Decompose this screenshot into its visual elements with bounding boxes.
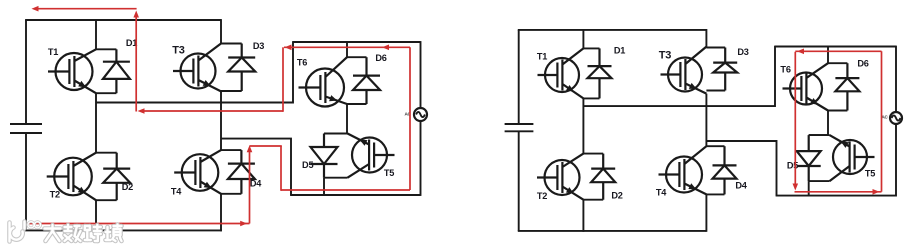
wire: leg2 upper (circuit 1) <box>220 19 222 43</box>
red path: block left vertical upper (circuit 1) <box>282 47 284 112</box>
transistor T1 (circuit 2) <box>538 48 584 98</box>
red path: up arrow at D1 (circuit 1) <box>133 11 139 112</box>
transistor T3 (circuit 2) <box>661 47 707 94</box>
transistor T5 (circuit 2) <box>830 135 875 181</box>
wire: top DC rail (circuit 2) <box>518 29 707 31</box>
svg-text:T2: T2 <box>537 191 547 201</box>
wire: left DC rail bottom segment (circuit 1) <box>25 133 27 230</box>
wire: AC source upper lead (circuit 1) <box>420 41 422 108</box>
svg-text:T3: T3 <box>172 44 185 56</box>
svg-text:D2: D2 <box>611 190 622 200</box>
label D1 (circuit 2) <box>614 45 625 55</box>
label D3 (circuit 2) <box>737 47 748 57</box>
wire: left DC rail top segment (circuit 2) <box>518 30 520 124</box>
svg-text:T5: T5 <box>865 168 875 178</box>
wire: top DC rail (circuit 1) <box>25 19 221 21</box>
svg-text:T1: T1 <box>537 51 547 61</box>
svg-text:D6: D6 <box>857 58 868 68</box>
wire: block center middle (circuit 1) <box>346 104 348 134</box>
label T4 <box>171 186 182 196</box>
red path: block left vertical lower (circuit 1) <box>280 146 282 191</box>
svg-text:D5: D5 <box>787 160 798 170</box>
label D3 <box>253 41 264 51</box>
wire: leg2 midpoint to block bottom (node B) <box>221 139 291 195</box>
red path: AC right vertical (circuit 1) <box>409 47 411 190</box>
red path: top return arrow (circuit 1) <box>32 6 137 12</box>
diode D1 <box>96 49 130 93</box>
diode D6 (circuit 2) <box>828 63 859 110</box>
red path: jog to D4 (circuit 1) <box>250 145 282 147</box>
label D2 <box>122 182 133 192</box>
label T2 <box>50 189 60 199</box>
wire: bottom DC rail (circuit 2) <box>518 230 707 232</box>
wire: block center upper (circuit 1) <box>346 41 348 57</box>
AC source V2 <box>890 112 902 124</box>
diode D2 (circuit 2) <box>583 154 615 200</box>
svg-text:T5: T5 <box>384 168 394 178</box>
label T6 (circuit 2) <box>780 64 790 74</box>
diode D3 (circuit 2) <box>706 48 737 91</box>
transistor T2 <box>47 153 96 201</box>
svg-text:T4: T4 <box>171 186 182 196</box>
capacitor C2 plates <box>505 124 534 131</box>
wire: block top rail (circuit 1) <box>293 41 421 43</box>
watermark glyph 2 <box>65 225 81 241</box>
label D4 <box>250 178 262 188</box>
wire: leg2 middle (circuit 1) <box>220 91 222 150</box>
svg-text:D5: D5 <box>302 160 313 170</box>
wire: leg1 middle (circuit 2) <box>582 98 584 153</box>
red path: loop top leftward arrow (circuit 2) <box>795 49 881 55</box>
diode D6 <box>347 57 380 104</box>
svg-text:T6: T6 <box>297 57 307 67</box>
svg-text:T2: T2 <box>50 189 60 199</box>
label T2 (circuit 2) <box>537 191 547 201</box>
wire: block center middle (circuit 2) <box>827 111 829 136</box>
red path: loop left vertical with down arrow (circuit 2) <box>793 52 799 191</box>
label D6 (circuit 2) <box>857 58 868 68</box>
wire: D5 lower wire to block bottom (circuit 2) <box>808 181 810 196</box>
label D1 <box>126 38 137 48</box>
svg-text:D1: D1 <box>614 45 625 55</box>
diode D5 (circuit 2) <box>797 135 830 181</box>
wire: leg1 upper (circuit 1) <box>95 19 97 49</box>
transistor T4 <box>174 150 221 194</box>
label T3 (circuit 2) <box>659 49 672 61</box>
label D4 (circuit 2) <box>735 180 747 190</box>
wire: block bottom rail (circuit 2) <box>776 195 896 197</box>
svg-text:D3: D3 <box>253 41 264 51</box>
wire: leg2 lower (circuit 2) <box>705 194 707 231</box>
wire: block center upper (circuit 2) <box>827 46 829 64</box>
transistor T4 (circuit 2) <box>659 146 707 194</box>
wire: left DC rail bottom segment (circuit 2) <box>518 131 520 231</box>
label D5 (circuit 2) <box>787 160 798 170</box>
wire: leg1 middle (circuit 1) <box>95 93 97 153</box>
red path: block bottom (circuit 1) <box>281 189 410 191</box>
svg-text:T3: T3 <box>659 49 672 61</box>
wire: AC source lower lead (circuit 2) <box>895 124 897 197</box>
wire: D5 lower wire to block bottom (circuit 1) <box>323 178 325 196</box>
watermark glyph 4 <box>106 225 122 242</box>
red path: bottom rail rightward (circuit 1) <box>27 221 250 227</box>
wire: leg2 upper (circuit 2) <box>705 29 707 47</box>
label T4 (circuit 2) <box>656 187 667 197</box>
wire: leg2 middle (circuit 2) <box>705 94 707 147</box>
svg-text:D2: D2 <box>122 182 133 192</box>
label D5 <box>302 160 313 170</box>
diode D5 <box>311 134 348 178</box>
label D2 (circuit 2) <box>611 190 622 200</box>
red path: block top leftward (circuit 1) <box>284 45 410 51</box>
diode D4 (circuit 2) <box>706 146 736 194</box>
diode D2 <box>96 153 130 201</box>
svg-text:T4: T4 <box>656 187 667 197</box>
diode D1 (circuit 2) <box>583 48 611 98</box>
label AC (circuit 2) <box>881 115 888 120</box>
wire: leg1 upper (circuit 2) <box>582 29 584 48</box>
svg-text:D6: D6 <box>375 53 386 63</box>
label AC (circuit 1) <box>404 111 411 116</box>
svg-text:T6: T6 <box>780 64 790 74</box>
label T1 <box>48 47 58 57</box>
capacitor C1 plates <box>10 124 42 133</box>
wire: AC source upper lead (circuit 2) <box>895 46 897 112</box>
red path: loop bottom rightward arrow (circuit 2) <box>795 189 882 195</box>
wire: D5/T5 top bracket (circuit 1) <box>324 133 348 135</box>
transistor T1 <box>48 49 96 93</box>
svg-text:D4: D4 <box>250 178 262 188</box>
wire: leg2 lower (circuit 1) <box>220 194 222 232</box>
svg-text:D4: D4 <box>735 180 747 190</box>
label T1 (circuit 2) <box>537 51 547 61</box>
AC source V1 <box>414 108 427 121</box>
watermark logo <box>10 222 41 242</box>
wire: AC source lower lead (circuit 1) <box>420 121 422 196</box>
wire: leg1 lower (circuit 1) <box>95 200 97 231</box>
red path: up through D4 (circuit 1) <box>247 145 253 223</box>
label T5 (circuit 2) <box>865 168 875 178</box>
wire: bottom DC rail (circuit 1) <box>25 229 222 231</box>
transistor T5 <box>348 134 395 178</box>
watermark glyph 3 <box>85 225 101 241</box>
wire: left DC rail top segment (circuit 1) <box>25 20 27 124</box>
wire: block top rail (circuit 2) <box>775 46 896 48</box>
wire: leg1 midpoint to block top (circuit 2) <box>583 46 775 107</box>
wire: leg1 lower (circuit 2) <box>582 200 584 232</box>
transistor T6 <box>299 57 348 106</box>
transistor T6 (circuit 2) <box>783 63 829 110</box>
transistor T3 <box>173 44 221 92</box>
svg-text:D3: D3 <box>737 47 748 57</box>
svg-text:AC: AC <box>881 115 888 120</box>
label T3 <box>172 44 185 56</box>
wire: leg1 midpoint to block top (node A) <box>96 41 293 102</box>
wire: leg2 midpoint to block bottom (circuit 2) <box>706 141 776 196</box>
watermark glyph 1 <box>45 225 61 241</box>
wire: block bottom rail (circuit 1) <box>290 194 420 196</box>
red path: loop right vertical (circuit 2) <box>881 51 883 192</box>
label T6 <box>297 57 307 67</box>
svg-text:T1: T1 <box>48 47 58 57</box>
wire: D5/T5 top bracket (circuit 2) <box>809 134 830 136</box>
label D6 <box>375 53 386 63</box>
label T5 <box>384 168 394 178</box>
diode D3 <box>221 44 255 92</box>
diode D4 <box>221 150 255 194</box>
red path: mid horizontal leftward (circuit 1) <box>138 108 284 114</box>
transistor T2 (circuit 2) <box>537 154 583 200</box>
